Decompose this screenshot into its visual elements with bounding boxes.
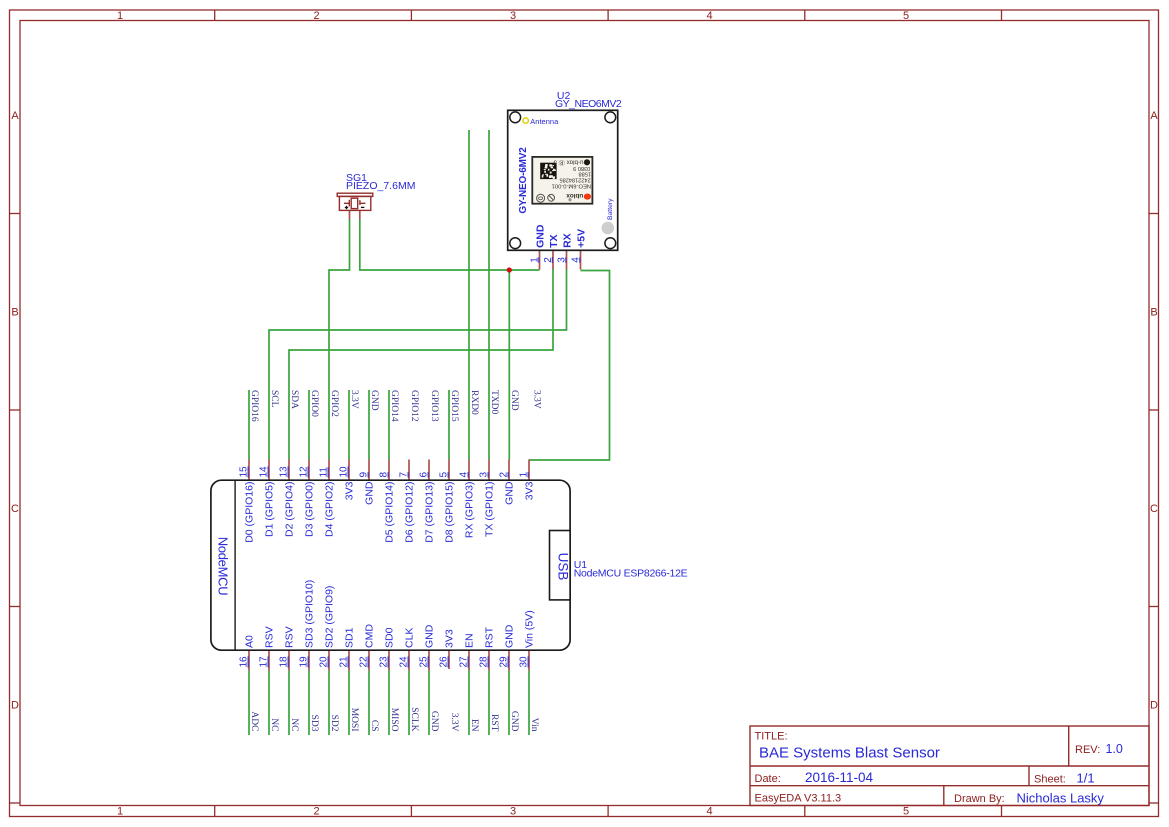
svg-text:SD3: SD3 xyxy=(309,715,319,732)
svg-text:2422184285: 2422184285 xyxy=(559,176,590,182)
svg-text:4: 4 xyxy=(570,257,581,263)
wire GPIO15 stub xyxy=(448,390,450,460)
svg-text:GND: GND xyxy=(364,481,376,505)
svg-text:27: 27 xyxy=(459,656,470,668)
svg-text:3V3: 3V3 xyxy=(444,629,456,648)
pin stubs xyxy=(249,211,581,671)
SG1 pins 1,2 xyxy=(350,211,360,220)
svg-text:TITLE:: TITLE: xyxy=(755,731,788,743)
svg-text:3.3V: 3.3V xyxy=(532,390,542,409)
svg-text:GPIO16: GPIO16 xyxy=(249,390,259,422)
svg-text:24: 24 xyxy=(399,656,410,668)
svg-text:23: 23 xyxy=(379,656,390,668)
svg-text:11: 11 xyxy=(319,467,330,478)
svg-text:2: 2 xyxy=(313,10,319,22)
svg-text:SD3 (GPIO10): SD3 (GPIO10) xyxy=(304,580,316,648)
svg-text:GPIO14: GPIO14 xyxy=(389,390,399,422)
svg-text:A: A xyxy=(11,110,19,122)
svg-text:20: 20 xyxy=(319,656,330,668)
svg-text:GND: GND xyxy=(534,224,546,248)
svg-text:25: 25 xyxy=(419,656,430,668)
svg-text:Date:: Date: xyxy=(755,773,781,785)
wire GPIO14 stub xyxy=(388,390,390,460)
svg-text:NC: NC xyxy=(289,718,299,731)
svg-text:RSV: RSV xyxy=(284,626,296,648)
svg-text:D2 (GPIO4): D2 (GPIO4) xyxy=(284,482,296,537)
wire GPS TX to D2 xyxy=(289,269,553,460)
svg-text:GND: GND xyxy=(504,481,516,505)
svg-text:GND: GND xyxy=(509,711,519,732)
svg-text:3: 3 xyxy=(510,806,516,818)
svg-text:TX: TX xyxy=(548,234,560,247)
svg-text:12: 12 xyxy=(299,466,310,478)
svg-text:1: 1 xyxy=(519,472,530,478)
wire GND stub xyxy=(368,390,370,460)
svg-text:NodeMCU ESP8266-12E: NodeMCU ESP8266-12E xyxy=(574,568,688,580)
svg-text:RXD0: RXD0 xyxy=(469,390,479,415)
svg-text:USB: USB xyxy=(556,553,571,581)
net labels top row xyxy=(249,390,542,422)
MCU U1 NodeMCU ESP8266-12E xyxy=(211,480,688,650)
svg-text:GPIO15: GPIO15 xyxy=(449,390,459,422)
svg-text:EN: EN xyxy=(469,719,479,732)
svg-text:7: 7 xyxy=(399,472,410,478)
svg-text:NEO-6M-0-001: NEO-6M-0-001 xyxy=(552,182,591,188)
svg-text:+5V: +5V xyxy=(575,229,587,248)
svg-text:D0 (GPIO16): D0 (GPIO16) xyxy=(244,482,256,543)
wire bottom stubs xyxy=(249,671,529,736)
svg-text:D6 (GPIO12): D6 (GPIO12) xyxy=(404,482,416,543)
svg-text:1: 1 xyxy=(117,806,123,818)
svg-text:5: 5 xyxy=(903,10,909,22)
svg-text:1588: 1588 xyxy=(579,170,591,176)
wire junction (GND net) xyxy=(507,267,512,272)
svg-text:5: 5 xyxy=(903,806,909,818)
svg-text:EasyEDA V3.11.3: EasyEDA V3.11.3 xyxy=(755,793,842,805)
svg-text:26: 26 xyxy=(439,656,450,668)
svg-text:SD2 (GPIO9): SD2 (GPIO9) xyxy=(324,586,336,648)
svg-text:2016-11-04: 2016-11-04 xyxy=(805,770,874,785)
U2 pins 1 GND, 2 TX, 3 RX, 4 +5V xyxy=(540,250,581,270)
svg-text:CMD: CMD xyxy=(364,624,376,648)
svg-text:1: 1 xyxy=(529,257,540,263)
wire GPIO0 stub xyxy=(308,390,310,460)
svg-text:A0: A0 xyxy=(244,635,256,648)
U1 top pins 15..1 xyxy=(249,460,529,481)
svg-text:B: B xyxy=(11,307,18,319)
svg-text:21: 21 xyxy=(339,656,350,668)
svg-text:C: C xyxy=(1150,503,1158,515)
svg-text:6: 6 xyxy=(419,472,430,478)
svg-text:1: 1 xyxy=(117,10,123,22)
svg-text:4: 4 xyxy=(706,10,712,22)
svg-text:GND: GND xyxy=(509,390,519,411)
svg-text:D: D xyxy=(1150,700,1158,712)
svg-text:9: 9 xyxy=(359,472,370,478)
wire piezo pin2 to GPS GND xyxy=(360,220,540,271)
svg-text:NC: NC xyxy=(269,718,279,731)
svg-text:10: 10 xyxy=(339,466,350,478)
wire RXD0 xyxy=(468,130,470,460)
svg-text:ublox: ublox xyxy=(566,192,583,199)
svg-text:4: 4 xyxy=(706,806,712,818)
svg-text:19: 19 xyxy=(299,656,310,668)
svg-text:CS: CS xyxy=(369,720,379,732)
svg-text:Battery: Battery xyxy=(607,198,614,220)
svg-text:RST: RST xyxy=(484,626,496,648)
U1 bottom pins 16..30 xyxy=(249,650,529,671)
svg-text:14: 14 xyxy=(259,466,270,478)
svg-text:Nicholas Lasky: Nicholas Lasky xyxy=(1017,790,1105,805)
svg-text:Sheet:: Sheet: xyxy=(1034,774,1066,786)
svg-text:SD0: SD0 xyxy=(384,627,396,648)
svg-text:D5 (GPIO14): D5 (GPIO14) xyxy=(384,482,396,543)
svg-text:3V3: 3V3 xyxy=(524,481,536,500)
svg-text:MOSI: MOSI xyxy=(349,708,359,732)
svg-text:GPIO12: GPIO12 xyxy=(409,390,419,422)
wire 3.3V stub xyxy=(348,390,350,460)
svg-text:EN: EN xyxy=(464,633,476,648)
svg-text:3: 3 xyxy=(556,257,567,263)
U1 top pin numbers xyxy=(239,466,530,478)
svg-text:RST: RST xyxy=(489,714,499,732)
U2 pin numbers 1-4 xyxy=(529,257,581,263)
svg-text:BAE Systems Blast Sensor: BAE Systems Blast Sensor xyxy=(759,744,940,761)
svg-text:2: 2 xyxy=(499,472,510,478)
svg-text:PIEZO_7.6MM: PIEZO_7.6MM xyxy=(346,180,415,192)
svg-text:GY-NEO-6MV2: GY-NEO-6MV2 xyxy=(518,147,529,214)
wire GPS RX to D1 xyxy=(269,269,567,460)
wire GPIO16 stub xyxy=(248,390,250,460)
svg-text:MISO: MISO xyxy=(389,708,399,732)
svg-text:3V3: 3V3 xyxy=(344,481,356,500)
svg-text:D4 (GPIO2): D4 (GPIO2) xyxy=(324,482,336,537)
wire TXD0 xyxy=(488,130,490,460)
wire GPS +5V to NodeMCU 3V3 pin1 xyxy=(529,271,610,461)
svg-text:Drawn By:: Drawn By: xyxy=(954,793,1005,805)
svg-text:22: 22 xyxy=(359,656,370,668)
svg-text:CLK: CLK xyxy=(404,628,416,648)
U2 chip photo (u-blox NEO-6M) xyxy=(532,157,592,204)
svg-text:8: 8 xyxy=(379,472,390,478)
svg-text:TX (GPIO1): TX (GPIO1) xyxy=(484,481,496,536)
QR datamatrix on chip xyxy=(540,163,556,179)
wire junction to NodeMCU GND pin2 xyxy=(508,270,510,460)
svg-text:17: 17 xyxy=(259,656,270,668)
svg-text:15: 15 xyxy=(239,466,250,478)
wires (green nets) xyxy=(249,130,610,735)
svg-text:1.0: 1.0 xyxy=(1106,742,1123,756)
U1 bottom pin numbers xyxy=(239,656,530,668)
svg-text:RSV: RSV xyxy=(264,626,276,648)
svg-text:5: 5 xyxy=(439,472,450,478)
svg-text:SCL: SCL xyxy=(269,390,279,408)
svg-text:SDA: SDA xyxy=(289,390,299,409)
svg-text:ADC: ADC xyxy=(249,711,259,731)
svg-text:SD2: SD2 xyxy=(329,715,339,732)
svg-text:3: 3 xyxy=(479,472,490,478)
svg-text:4: 4 xyxy=(459,472,470,478)
svg-text:D3 (GPIO0): D3 (GPIO0) xyxy=(304,482,316,537)
svg-text:GND: GND xyxy=(504,624,516,648)
svg-text:D7 (GPIO13): D7 (GPIO13) xyxy=(424,482,436,543)
svg-text:Vin (5V): Vin (5V) xyxy=(524,610,536,648)
svg-text:29: 29 xyxy=(499,656,510,668)
svg-text:GND: GND xyxy=(424,624,436,648)
svg-text:13: 13 xyxy=(279,466,290,478)
svg-text:GPIO0: GPIO0 xyxy=(309,390,319,417)
svg-text:3.3V: 3.3V xyxy=(449,713,459,732)
svg-text:NodeMCU: NodeMCU xyxy=(216,537,231,596)
piezo buzzer SG1 PIEZO_7.6MM xyxy=(337,172,415,210)
svg-text:Vin: Vin xyxy=(529,718,539,732)
svg-text:GPIO13: GPIO13 xyxy=(429,390,439,422)
svg-text:TXD0: TXD0 xyxy=(489,390,499,415)
svg-text:28: 28 xyxy=(479,656,490,668)
GPS module U2 GY_NEO6MV2 xyxy=(508,90,622,263)
svg-text:1/1: 1/1 xyxy=(1077,771,1095,786)
svg-text:3: 3 xyxy=(510,10,516,22)
wire piezo pin1 to D4 GPIO2 xyxy=(329,220,350,460)
svg-text:SCLK: SCLK xyxy=(409,707,419,731)
svg-text:GPIO2: GPIO2 xyxy=(329,390,339,417)
svg-text:2: 2 xyxy=(313,806,319,818)
svg-text:30: 30 xyxy=(519,656,530,668)
svg-text:REV:: REV: xyxy=(1075,744,1100,756)
svg-text:A: A xyxy=(1150,110,1158,122)
svg-text:16: 16 xyxy=(239,656,250,668)
svg-text:3.3V: 3.3V xyxy=(349,390,359,409)
svg-text:B: B xyxy=(1150,307,1157,319)
title block xyxy=(750,726,1149,806)
svg-text:Antenna: Antenna xyxy=(530,117,559,126)
svg-text:2: 2 xyxy=(543,257,554,263)
svg-text:D: D xyxy=(11,700,19,712)
svg-text:D8 (GPIO15): D8 (GPIO15) xyxy=(444,481,456,542)
svg-text:18: 18 xyxy=(279,656,290,668)
svg-text:SD1: SD1 xyxy=(344,627,356,648)
svg-text:RX: RX xyxy=(561,233,573,248)
svg-text:GND: GND xyxy=(429,711,439,732)
svg-text:GND: GND xyxy=(369,390,379,411)
svg-text:C: C xyxy=(11,503,19,515)
net labels bottom row xyxy=(249,707,539,732)
svg-text:D1 (GPIO5): D1 (GPIO5) xyxy=(264,482,276,537)
svg-text:RX (GPIO3): RX (GPIO3) xyxy=(464,481,476,538)
U2 pin names GND TX RX +5V xyxy=(534,224,587,248)
U1 top pin names xyxy=(244,481,536,543)
U1 bottom pin names xyxy=(244,580,536,648)
svg-text:GY_NEO6MV2: GY_NEO6MV2 xyxy=(555,98,622,110)
